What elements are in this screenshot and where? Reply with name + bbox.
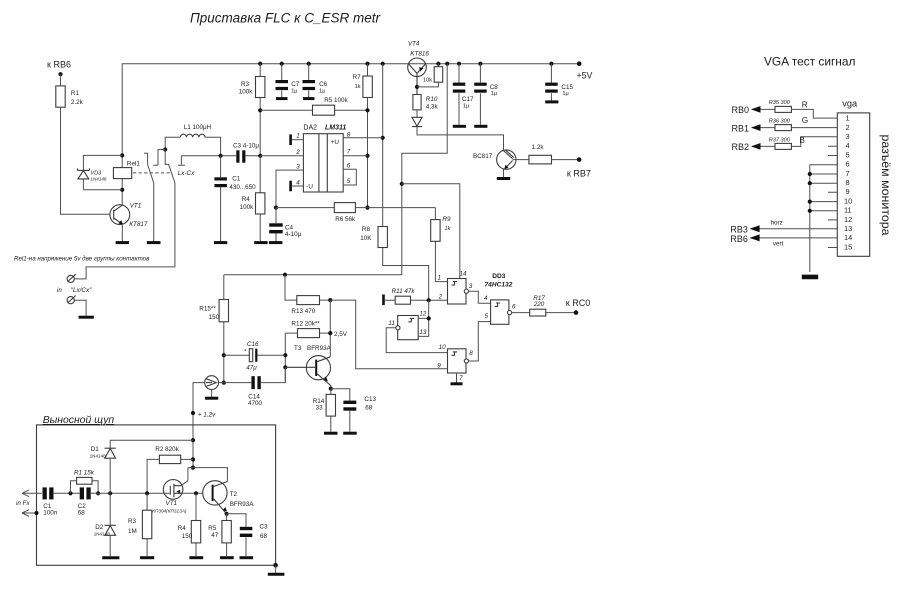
- svg-text:VD3: VD3: [90, 171, 102, 177]
- svg-text:+ 1.2v: + 1.2v: [198, 412, 216, 419]
- relay contact 1 blade: [148, 165, 154, 242]
- resistor R15 150: [223, 275, 225, 383]
- svg-text:C1: C1: [232, 175, 241, 182]
- relay coil Rel1: [113, 168, 131, 179]
- svg-text:R10: R10: [426, 96, 438, 103]
- svg-text:VT1: VT1: [130, 202, 142, 209]
- svg-text:R: R: [802, 100, 808, 109]
- wire FET source to T2 base: [183, 492, 203, 494]
- svg-text:68: 68: [78, 509, 86, 516]
- svg-text:15: 15: [844, 242, 852, 251]
- svg-text:-U: -U: [306, 183, 313, 190]
- wire collector node to gate3 pin9: [330, 300, 447, 369]
- svg-text:C6: C6: [319, 81, 328, 88]
- svg-text:2: 2: [438, 293, 443, 300]
- transistor T3 BFR93A: [285, 345, 331, 389]
- wire R35 to pin1: [791, 109, 837, 118]
- wire collector vertical: [329, 300, 331, 357]
- svg-text:10k: 10k: [423, 77, 432, 83]
- VGA ground bus: [810, 165, 838, 272]
- node gateB pin12: [427, 316, 431, 320]
- wire DD3 pin14 feed: [402, 184, 460, 279]
- wire BC817 emitter + ground: [503, 169, 505, 177]
- svg-text:8: 8: [347, 131, 351, 138]
- svg-text:1: 1: [296, 132, 300, 139]
- svg-text:2.2k: 2.2k: [71, 99, 84, 106]
- svg-text:1: 1: [846, 114, 850, 123]
- node VT4 emitter: [415, 85, 419, 89]
- node generator-R15: [222, 381, 226, 385]
- svg-text:Rel1-на напряжение 5v две груп: Rel1-на напряжение 5v две группы контакт…: [14, 256, 150, 263]
- diode VD3 1N4148: [78, 168, 107, 181]
- svg-text:in Fx: in Fx: [16, 500, 30, 507]
- node L1 left: [163, 147, 167, 151]
- capacitor C3 4-10u: [233, 142, 259, 162]
- svg-text:12: 12: [844, 215, 852, 224]
- svg-text:R3: R3: [128, 518, 137, 525]
- svg-text:1.2k: 1.2k: [532, 144, 545, 151]
- capacitor C8 1u: [474, 64, 498, 127]
- ground VT1: [116, 241, 129, 244]
- svg-text:7: 7: [347, 148, 351, 155]
- wire VT1 emitter: [121, 224, 123, 241]
- svg-text:RB0: RB0: [732, 105, 750, 115]
- svg-text:12: 12: [419, 311, 427, 318]
- svg-text:RB6: RB6: [730, 234, 748, 244]
- node T2 base / R4: [194, 491, 198, 495]
- resistor R37 300: [775, 143, 791, 149]
- node R1 left: [68, 491, 72, 495]
- resistor R1 2.2k: [56, 86, 65, 107]
- svg-text:R4: R4: [242, 196, 251, 203]
- node rail-10k: [436, 62, 440, 66]
- resistor R14 33: [330, 389, 332, 432]
- svg-text:LM311: LM311: [325, 125, 346, 132]
- svg-text:Rel1: Rel1: [127, 161, 140, 168]
- wire to RB7: [552, 159, 580, 161]
- svg-text:C7: C7: [291, 81, 300, 88]
- node rail-R8: [381, 62, 385, 66]
- svg-text:C17: C17: [462, 96, 474, 103]
- node D1-D2: [108, 491, 112, 495]
- DA2 pin 7 wire: [343, 155, 367, 157]
- svg-text:1N4148: 1N4148: [90, 454, 107, 459]
- svg-text:4-10μ: 4-10μ: [285, 231, 302, 238]
- resistor R11 47k: [382, 295, 385, 306]
- svg-text:2: 2: [295, 149, 300, 156]
- svg-text:к RC0: к RC0: [566, 298, 590, 308]
- wire R36 to pin2: [791, 127, 837, 129]
- ground R14: [324, 432, 338, 435]
- svg-text:1μ: 1μ: [463, 104, 469, 110]
- svg-text:4: 4: [484, 295, 488, 302]
- wire T2 collector feed: [188, 468, 228, 482]
- node R7-R6: [365, 206, 369, 210]
- svg-text:к RB7: к RB7: [567, 168, 591, 178]
- svg-text:КТ817: КТ817: [129, 221, 148, 228]
- ground VGA bus: [802, 275, 818, 280]
- svg-text:1N4148: 1N4148: [94, 532, 111, 537]
- transistor VT1 KT817: [110, 202, 148, 228]
- svg-text:*: *: [244, 349, 247, 356]
- svg-text:1M: 1M: [128, 528, 137, 535]
- node +5 to DD3 pin14: [400, 182, 404, 186]
- svg-text:"Lx/Cx": "Lx/Cx": [71, 287, 92, 294]
- svg-text:R36 300: R36 300: [769, 119, 791, 125]
- resistor R3 1M (probe): [146, 493, 148, 556]
- svg-text:C8: C8: [490, 84, 499, 91]
- transistor VT1 FET KP304: [152, 480, 187, 514]
- svg-text:Выносной щуп: Выносной щуп: [43, 415, 115, 426]
- gate DD3.1: [438, 271, 473, 304]
- resistor R36 300: [775, 125, 791, 131]
- node +5wire-R13: [283, 273, 287, 277]
- svg-text:1N4148: 1N4148: [90, 177, 107, 182]
- resistor R1 15k (probe): [71, 481, 99, 494]
- node VD3 bottom: [120, 188, 124, 192]
- capacitor C16 47u: [224, 341, 285, 371]
- VGA pin numbers: [844, 114, 852, 252]
- wire relay branch: [121, 155, 123, 205]
- DA2 pin 3 wire: [276, 170, 303, 208]
- svg-text:RB3: RB3: [730, 224, 748, 234]
- svg-text:D1: D1: [91, 446, 100, 453]
- svg-text:Приставка FLC к C_ESR metr: Приставка FLC к C_ESR metr: [190, 11, 380, 26]
- svg-text:R5 100k: R5 100k: [324, 97, 348, 104]
- svg-text:6: 6: [512, 304, 516, 311]
- VGA connector box: [837, 113, 869, 256]
- resistor R6 56k: [276, 207, 435, 209]
- node 2,5V: [328, 331, 332, 335]
- node rail-C8: [478, 62, 482, 66]
- capacitor C14 4700: [219, 367, 286, 407]
- arrow RB1: [752, 127, 775, 129]
- capacitor C7 1u: [276, 64, 300, 99]
- DA2 pins 6-5 strap: [343, 169, 356, 185]
- node R15-C16: [222, 353, 226, 357]
- wire RB6 to R1: [60, 74, 62, 86]
- resistor R9 1k: [435, 208, 447, 282]
- capacitor C2 68: [78, 487, 91, 516]
- wire +5 rail top: [122, 64, 579, 156]
- arrow in Fx signal: [22, 490, 42, 497]
- svg-text:5: 5: [846, 150, 850, 159]
- node T2 feed: [191, 466, 195, 470]
- svg-text:4: 4: [846, 141, 850, 150]
- ground C1: [214, 241, 227, 244]
- node rail +5 branch: [445, 62, 449, 66]
- svg-text:VT4: VT4: [408, 41, 420, 48]
- ground C4: [269, 241, 283, 244]
- wire C3 node: [181, 155, 260, 157]
- svg-text:5: 5: [347, 178, 351, 185]
- svg-text:1k: 1k: [445, 226, 452, 232]
- svg-text:G: G: [802, 116, 808, 125]
- svg-text:430...650: 430...650: [229, 184, 256, 191]
- node R1 right: [96, 491, 100, 495]
- transistor T2 BFR93A: [203, 481, 255, 514]
- svg-text:68: 68: [260, 533, 268, 540]
- resistor 1.2k: [529, 155, 552, 164]
- svg-text:к RB6: к RB6: [47, 60, 71, 70]
- svg-text:2: 2: [846, 123, 850, 132]
- svg-text:+U: +U: [331, 139, 340, 146]
- wire C1 to C2: [53, 492, 79, 494]
- svg-text:in: in: [57, 287, 62, 294]
- wire gate3 pin7 ground: [456, 373, 458, 383]
- svg-text:4,3k: 4,3k: [426, 103, 439, 110]
- node T3 emitter: [329, 387, 333, 391]
- node T3 base: [283, 365, 287, 369]
- svg-text:13: 13: [419, 329, 427, 336]
- capacitor C13 68: [331, 389, 377, 434]
- node R3-R5: [258, 108, 262, 112]
- svg-text:R4: R4: [178, 525, 187, 532]
- node pin3-C4: [274, 206, 278, 210]
- node R13 right: [328, 298, 332, 302]
- svg-text:C15: C15: [561, 84, 573, 91]
- svg-text:T2: T2: [230, 491, 238, 498]
- ground contact1: [147, 241, 161, 244]
- svg-text:R13 470: R13 470: [291, 308, 315, 315]
- node rail-R7: [365, 62, 369, 66]
- node R7-R5: [365, 108, 369, 112]
- node rail-C7: [280, 62, 284, 66]
- svg-text:10: 10: [844, 196, 852, 205]
- wire L1 left: [165, 137, 180, 149]
- node bus pin7: [808, 172, 812, 176]
- arrow in Fx ground: [22, 510, 37, 517]
- svg-text:C16: C16: [247, 341, 259, 348]
- svg-text:8: 8: [846, 178, 850, 187]
- resistor R12 20k: [285, 332, 330, 334]
- resistor R10 4,3k: [413, 95, 421, 110]
- node к RC0: [574, 310, 579, 315]
- terminal in Lx/Cx: [57, 274, 92, 294]
- node shield corner ground: [273, 563, 278, 568]
- svg-text:R7: R7: [353, 74, 362, 81]
- transistor BC817: [473, 150, 529, 170]
- svg-text:R2 820k: R2 820k: [155, 446, 179, 453]
- capacitor C1 100n: [43, 487, 58, 516]
- relay contact 2 pivot: [153, 150, 165, 166]
- resistor R13 470: [285, 275, 330, 300]
- svg-text:L1 100μH: L1 100μH: [184, 124, 212, 131]
- node rail-C17: [457, 62, 461, 66]
- svg-text:10K: 10K: [360, 235, 372, 242]
- svg-text:11: 11: [844, 206, 852, 215]
- svg-text:10: 10: [439, 344, 447, 351]
- svg-text:R9: R9: [442, 216, 451, 223]
- svg-text:4: 4: [296, 180, 300, 187]
- resistor R17 220: [512, 312, 576, 314]
- probe shield box: [37, 425, 276, 565]
- node rail-R3: [258, 62, 262, 66]
- svg-text:7: 7: [846, 169, 850, 178]
- svg-text:разъём монитора: разъём монитора: [879, 135, 893, 236]
- svg-text:R1: R1: [71, 90, 80, 97]
- svg-text:3: 3: [296, 164, 300, 171]
- node T2 emitter: [225, 512, 229, 516]
- DA2 pin 4 input bar: [292, 185, 304, 187]
- svg-text:T3: T3: [294, 345, 302, 352]
- svg-text:9: 9: [846, 187, 850, 196]
- svg-text:R11 47k: R11 47k: [392, 288, 416, 295]
- svg-text:R1 15k: R1 15k: [74, 469, 95, 476]
- svg-text:1: 1: [438, 274, 442, 281]
- svg-text:1k: 1k: [355, 84, 361, 90]
- svg-text:BC817: BC817: [473, 153, 493, 160]
- svg-text:R37 300: R37 300: [769, 137, 791, 143]
- node C16 right: [283, 353, 287, 357]
- svg-text:КП304(КП313А): КП304(КП313А): [152, 508, 187, 513]
- capacitor C1 430...650: [214, 156, 256, 242]
- node +5V end: [577, 61, 582, 66]
- svg-text:3: 3: [846, 132, 850, 141]
- transistor VT4 KT816: [408, 41, 430, 95]
- svg-text:150: 150: [182, 533, 193, 540]
- svg-text:100k: 100k: [239, 88, 254, 95]
- node rail-C15: [549, 62, 553, 66]
- diode D2: [94, 493, 116, 556]
- svg-text:C3 4-10μ: C3 4-10μ: [233, 142, 259, 149]
- DA2 pin 2 wire: [260, 155, 303, 157]
- svg-text:3: 3: [469, 283, 473, 290]
- node R3-C3 pin2: [258, 154, 262, 158]
- svg-text:RB1: RB1: [732, 123, 750, 133]
- svg-text:1μ: 1μ: [291, 88, 297, 94]
- wire R37 to pin3: [791, 137, 837, 147]
- relay contact 1 fixed post: [144, 153, 148, 164]
- svg-text:6: 6: [846, 160, 850, 169]
- node +1.2v: [191, 411, 195, 415]
- resistor R7 1k: [367, 64, 369, 208]
- svg-text:100k: 100k: [240, 204, 255, 211]
- resistor R4 150 (probe): [195, 493, 197, 556]
- resistor R35 300: [775, 106, 791, 112]
- wire L1 right: [205, 137, 221, 156]
- svg-text:47μ: 47μ: [246, 364, 257, 371]
- resistor R5 47 (probe): [226, 514, 228, 556]
- wire gate3 out to gate4 in5: [469, 322, 491, 361]
- gate DD3.2: [388, 311, 427, 340]
- wire relay dashed link: [133, 172, 171, 174]
- svg-text:8: 8: [469, 350, 473, 357]
- node bus pin10: [808, 200, 812, 204]
- node R2 right: [191, 457, 195, 461]
- svg-text:R3: R3: [241, 81, 250, 88]
- node bus pin11: [808, 209, 812, 213]
- svg-text:DD3: DD3: [492, 273, 506, 280]
- wire +5 branch down: [224, 64, 447, 275]
- capacitor C6 1u: [303, 64, 328, 99]
- node C1 top: [219, 154, 223, 158]
- wire gate1 out to gate4 in: [469, 291, 491, 303]
- svg-text:14: 14: [844, 233, 852, 242]
- gate DD3.3: [437, 344, 473, 382]
- wire generator to +1.2v: [193, 383, 205, 468]
- svg-text:220: 220: [533, 301, 545, 308]
- node R11-pin2: [427, 298, 431, 302]
- relay contact 2 fixed post: [178, 156, 185, 166]
- capacitor C4 4-10u: [269, 208, 301, 242]
- svg-text:horz: horz: [771, 220, 783, 227]
- VGA pin stubs unconnected: [828, 146, 837, 247]
- svg-text:5: 5: [485, 313, 489, 320]
- svg-text:vert: vert: [773, 241, 784, 248]
- diode D1: [90, 440, 193, 493]
- svg-text:33: 33: [316, 404, 324, 411]
- svg-text:BFR93A: BFR93A: [230, 501, 255, 508]
- svg-text:150: 150: [209, 314, 220, 321]
- svg-text:14: 14: [460, 271, 468, 278]
- relay contact 2 blade: [75, 150, 175, 279]
- resistor R5 100k: [260, 109, 367, 111]
- wire diode to BC817: [417, 127, 504, 151]
- svg-text:1μ: 1μ: [562, 91, 568, 97]
- svg-text:DA2: DA2: [303, 125, 317, 132]
- svg-text:1μ: 1μ: [319, 88, 325, 94]
- node R7-pin7: [365, 154, 369, 158]
- wire VD3 loop: [83, 155, 122, 189]
- svg-text:7: 7: [459, 375, 463, 382]
- resistor R3 100k: [259, 64, 261, 156]
- diode VD below R10: [416, 110, 418, 117]
- svg-text:13: 13: [844, 224, 852, 233]
- gate DD3.4: [484, 295, 516, 324]
- svg-text:2,5V: 2,5V: [334, 331, 348, 338]
- generator jack: [205, 376, 219, 399]
- svg-text:1μ: 1μ: [491, 91, 497, 97]
- svg-text:4700: 4700: [248, 400, 263, 407]
- node R8-pin8: [381, 136, 385, 140]
- resistor 10k: [417, 64, 438, 87]
- svg-text:B: B: [799, 136, 805, 145]
- resistor R8 10K: [383, 64, 429, 301]
- resistor R2 820k: [147, 459, 193, 493]
- wire gate2 out to gate3 in10: [386, 328, 447, 353]
- svg-text:74HC132: 74HC132: [485, 282, 513, 289]
- ground R4: [254, 241, 267, 244]
- svg-text:+5V: +5V: [577, 71, 593, 81]
- wire C2 to FET gate: [90, 492, 163, 494]
- terminal in Lx/Cx ground pin: [67, 296, 94, 318]
- svg-text:KT816: KT816: [410, 50, 429, 57]
- DA2 pin 1 input bar: [292, 139, 304, 141]
- svg-text:68: 68: [365, 405, 373, 412]
- arrow RB2: [752, 145, 775, 147]
- wire R1 to VT1 base: [61, 107, 111, 214]
- node rail-C6: [307, 62, 311, 66]
- svg-text:47: 47: [211, 532, 219, 539]
- inductor L1 100uH: [180, 124, 211, 138]
- capacitor C17 1u: [453, 64, 474, 127]
- svg-text:BFR93A: BFR93A: [307, 345, 332, 352]
- svg-text:VGA тест сигнал: VGA тест сигнал: [764, 55, 855, 69]
- svg-text:C13: C13: [364, 396, 376, 403]
- resistor R4 100k: [259, 156, 261, 242]
- node VD3 top: [120, 153, 124, 157]
- node R3 top (probe): [145, 491, 149, 495]
- svg-text:R15**: R15**: [199, 305, 216, 312]
- arrow RB0: [752, 108, 775, 110]
- svg-text:11: 11: [388, 320, 395, 327]
- DA2 pin 8 wire: [343, 137, 383, 139]
- wire R12 left to base: [284, 333, 286, 383]
- svg-text:6: 6: [347, 162, 351, 169]
- svg-text:D2: D2: [95, 524, 104, 531]
- svg-text:vga: vga: [842, 99, 858, 109]
